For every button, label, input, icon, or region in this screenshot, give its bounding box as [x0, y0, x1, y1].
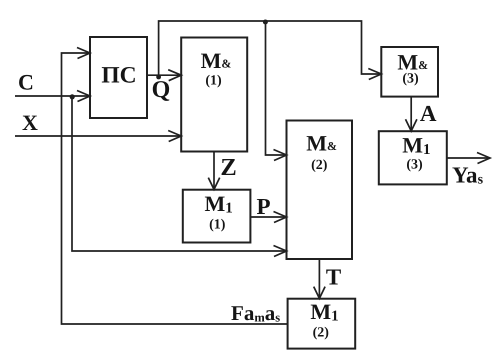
wire: X input to M&(1): [15, 135, 181, 137]
wire: A from M&(3) to M1(3): [410, 97, 412, 131]
svg-text:Z: Z: [220, 154, 236, 181]
block M& (1): [181, 38, 247, 152]
block M1 (3): [379, 131, 447, 184]
wire: Z from M&(1) to M1(1): [213, 152, 215, 189]
arrowhead of Ya_s output: [477, 153, 490, 164]
wire: Q up and across the top: [159, 21, 382, 75]
junction dot on C line: [70, 94, 75, 99]
junction dot on top wire: [263, 20, 268, 25]
svg-text:(2): (2): [313, 325, 330, 340]
wire: P from M1(1) to M&(2): [250, 216, 286, 218]
svg-text:(1): (1): [205, 74, 222, 89]
wire: T from M&(2) to M1(2): [318, 259, 320, 298]
wire: C input to ПС: [15, 95, 90, 97]
block M& (3): [381, 47, 438, 97]
svg-text:C: C: [18, 69, 34, 94]
block M1 (2): [288, 299, 356, 349]
arrowhead into M&(1) upper input: [168, 70, 181, 81]
junction dot on Q node: [156, 75, 161, 80]
wire: left feedback vertical (Fam as to ПС upper input): [62, 53, 288, 324]
arrowhead down into M1(1): [208, 178, 219, 190]
svg-text:P: P: [256, 194, 270, 219]
svg-text:Q: Q: [152, 77, 171, 103]
svg-text:A: A: [420, 101, 437, 126]
arrowhead down into M1(3): [406, 119, 417, 131]
svg-text:T: T: [326, 264, 341, 289]
arrowhead into M&(2) second input: [274, 212, 287, 223]
block M1 (1): [183, 190, 251, 243]
arrowhead into M&(2) first input: [274, 150, 287, 161]
svg-text:(3): (3): [406, 158, 423, 173]
arrowhead into M&(1) lower input: [168, 131, 181, 142]
svg-text:(2): (2): [311, 158, 328, 173]
svg-text:(1): (1): [209, 218, 226, 233]
arrowhead into M&(3) input: [368, 69, 381, 80]
svg-text:ПС: ПС: [101, 63, 136, 89]
wire: Ya_s output from M1(3): [447, 157, 490, 159]
wire: ПС output Q to M&(1): [147, 74, 182, 76]
arrowhead into ПС lower input: [77, 91, 90, 102]
wire: top-wire branch down to M&(2) first input: [266, 21, 287, 155]
wire: C branch down to M&(2) third input: [72, 96, 287, 251]
arrowhead into M&(2) third input: [274, 246, 287, 257]
svg-text:(3): (3): [402, 72, 419, 87]
arrowhead down into M1(2): [314, 287, 325, 299]
block M& (2): [287, 121, 353, 260]
block ПС (pulse counter): [90, 37, 147, 118]
svg-text:X: X: [22, 110, 38, 135]
arrowhead into ПС upper input: [77, 48, 90, 59]
